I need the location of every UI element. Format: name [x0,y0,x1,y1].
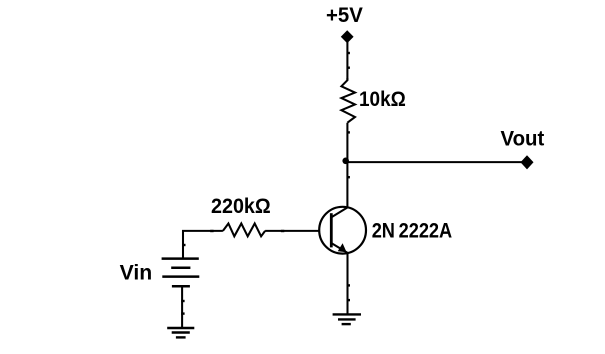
svg-text:2N 2222A: 2N 2222A [372,220,453,243]
svg-text:220kΩ: 220kΩ [211,195,271,218]
wire base to R2 [265,230,319,232]
resistor R2 [223,224,265,237]
wire +5V to R1 [346,41,348,81]
transistor Q1 circle [319,207,366,254]
svg-text:Vin: Vin [120,261,153,284]
wire R1 to collector node [346,123,348,209]
wire emitter to ground [346,253,348,315]
wire node to Vout [347,161,522,163]
wire battery to ground [181,286,183,328]
node +5V terminal diamond [341,30,354,43]
node junction dot [342,158,349,165]
transistor Q1 emitter stroke [331,243,348,253]
wire R2 to battery [183,231,223,258]
battery V1 plate short bottom [172,285,190,288]
ground emitter [333,314,361,324]
transistor Q1 emitter arrow [338,243,347,252]
resistor R1 [341,78,355,123]
battery V1 plate long bottom [162,275,199,278]
transistor Q1 base bar [330,213,333,247]
svg-text:Vout: Vout [501,128,545,151]
battery V1 plate long top [162,257,199,260]
node Vout terminal diamond [521,155,534,169]
svg-text:10kΩ: 10kΩ [359,88,406,111]
svg-text:+5V: +5V [326,4,363,27]
transistor Q1 collector stroke [331,207,348,217]
battery V1 plate short [171,266,190,269]
ground battery [167,328,194,337]
